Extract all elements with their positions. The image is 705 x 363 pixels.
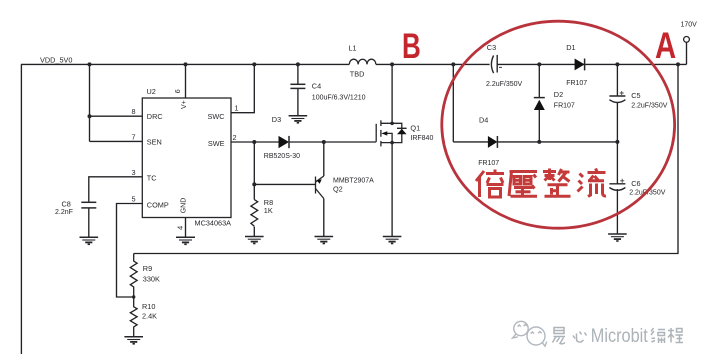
ic U2 MC34063A body bbox=[142, 98, 231, 218]
transistor Q2 MMBT2907A bbox=[316, 176, 324, 199]
wire VDD branch down to pin7 bbox=[89, 64, 91, 141]
wire Q2 emitter drop bbox=[323, 142, 325, 176]
svg-text:FR107: FR107 bbox=[566, 80, 587, 87]
svg-text:4: 4 bbox=[176, 226, 185, 230]
wire to pin 8 DRC bbox=[90, 115, 143, 117]
node C5 top junction bbox=[615, 62, 619, 66]
transistor Q1 IRF840 bbox=[376, 120, 402, 146]
node C4 rail junction bbox=[296, 62, 300, 66]
wire C6 branch top bbox=[616, 142, 618, 184]
node D2 bottom junction bbox=[537, 140, 541, 144]
capacitor C4 plates bbox=[290, 84, 305, 88]
svg-text:6: 6 bbox=[173, 89, 182, 93]
node divider mid junction bbox=[132, 295, 135, 298]
svg-text:3: 3 bbox=[131, 168, 135, 177]
svg-text:SWC: SWC bbox=[207, 112, 224, 121]
wire SWC pin1 up to rail bbox=[231, 64, 254, 112]
capacitor C6 plus bbox=[620, 179, 624, 183]
svg-text:170V: 170V bbox=[681, 22, 698, 29]
svg-text:C8: C8 bbox=[62, 199, 71, 208]
node V+ rail junction bbox=[184, 62, 188, 66]
capacitor C5 plus bbox=[620, 91, 624, 95]
svg-text:1K: 1K bbox=[264, 206, 273, 215]
svg-text:B: B bbox=[402, 26, 421, 66]
wire C6 bottom to ground bbox=[616, 189, 618, 234]
capacitor C5 plates bbox=[609, 96, 625, 103]
capacitor C3 polarity mark bbox=[499, 66, 502, 68]
node Q1 source junction bbox=[390, 141, 394, 145]
node D2 top junction bbox=[537, 62, 541, 66]
resistor R8 bbox=[251, 200, 258, 227]
transistor Q2 emitter arrow bbox=[317, 179, 322, 183]
wire C4 branch bbox=[297, 64, 299, 84]
node Q2 base junction bbox=[252, 182, 256, 186]
wire D2 branch top bbox=[538, 64, 540, 97]
watermark char Cheng bbox=[668, 328, 683, 343]
node feedback top junction bbox=[676, 62, 680, 66]
wire top rail left segment VDD to L1 bbox=[21, 63, 349, 65]
svg-text:D1: D1 bbox=[566, 43, 575, 52]
svg-text:100uF/6.3V/1210: 100uF/6.3V/1210 bbox=[312, 94, 366, 101]
diode D1 bbox=[575, 59, 585, 71]
wire R8 bottom to ground bbox=[253, 227, 255, 237]
wire Q2 collector to ground bbox=[323, 199, 325, 237]
svg-text:A: A bbox=[655, 25, 676, 66]
wire left rail bbox=[20, 64, 22, 354]
watermark char Bian bbox=[651, 328, 665, 343]
inductor L1 bbox=[349, 59, 376, 64]
wire Q1 drain from node B bbox=[391, 64, 393, 123]
wire R8 branch down bbox=[253, 142, 255, 200]
svg-text:2: 2 bbox=[233, 133, 237, 142]
wire D4 row right bbox=[497, 141, 617, 143]
wire V+ stub pin6 bbox=[185, 64, 187, 98]
svg-text:Q2: Q2 bbox=[333, 184, 343, 193]
svg-text:V+: V+ bbox=[181, 100, 188, 109]
annotation char Liu bbox=[578, 169, 607, 197]
wire output terminal stub bbox=[686, 42, 688, 64]
ground Q2 bbox=[315, 237, 334, 244]
diode Q1 body diode bbox=[397, 128, 407, 134]
svg-text:DRC: DRC bbox=[147, 112, 163, 121]
svg-text:R10: R10 bbox=[142, 302, 155, 311]
svg-text:FR107: FR107 bbox=[478, 160, 499, 167]
wire top rail L1 to C3 bbox=[376, 63, 490, 65]
capacitor C8 plates bbox=[81, 202, 96, 208]
wire C4 to ground bbox=[297, 89, 299, 116]
svg-text:IRF840: IRF840 bbox=[410, 135, 433, 142]
svg-text:Microbit: Microbit bbox=[591, 325, 648, 347]
ground C8 bbox=[80, 237, 99, 244]
svg-text:SEN: SEN bbox=[147, 138, 162, 147]
wire GND stub pin4 bbox=[185, 218, 187, 238]
capacitor C6 plates bbox=[609, 184, 625, 191]
svg-text:C6: C6 bbox=[631, 179, 640, 188]
wire SWE pin2 to D3 anode bbox=[231, 141, 279, 143]
svg-text:C5: C5 bbox=[631, 91, 640, 100]
logo watermark bubbles bbox=[513, 321, 547, 346]
wire Q1 source to ground bbox=[391, 143, 393, 237]
svg-text:TC: TC bbox=[147, 174, 157, 183]
svg-text:8: 8 bbox=[131, 107, 135, 116]
node SWC rail junction bbox=[252, 62, 256, 66]
diode D3 bbox=[279, 136, 290, 148]
node VDD junction bbox=[88, 62, 92, 66]
svg-text:RB520S-30: RB520S-30 bbox=[264, 153, 300, 160]
svg-text:1: 1 bbox=[235, 104, 239, 113]
diode D4 bbox=[488, 136, 498, 148]
node C5 bottom junction bbox=[615, 140, 619, 144]
svg-text:MC34063A: MC34063A bbox=[195, 219, 232, 228]
svg-text:MMBT2907A: MMBT2907A bbox=[333, 177, 374, 184]
ground C4 bbox=[289, 116, 308, 123]
svg-text:SWE: SWE bbox=[208, 139, 225, 148]
wire C5 bottom to D4 row bbox=[616, 103, 618, 142]
wire top rail C3 to terminal bbox=[497, 63, 686, 65]
watermark char Xin bbox=[573, 332, 587, 343]
capacitor C3 series plates bbox=[491, 55, 497, 73]
wire D2 bottom to D4 row bbox=[538, 110, 540, 142]
svg-text:C4: C4 bbox=[312, 82, 321, 91]
annotation char Bei bbox=[476, 170, 504, 198]
wire COMP pin5 down to divider bbox=[117, 204, 143, 298]
annotation char Ya bbox=[509, 172, 537, 197]
transistor Q1 body arrow bbox=[381, 131, 387, 135]
node B rail junction bbox=[390, 62, 394, 66]
wire doubler left branch down bbox=[452, 64, 454, 141]
node doubler left junction bbox=[451, 62, 455, 66]
resistor R10 bbox=[130, 297, 137, 337]
annotation char Zheng bbox=[543, 169, 571, 197]
svg-text:5: 5 bbox=[131, 195, 135, 204]
svg-text:Q1: Q1 bbox=[410, 124, 420, 133]
svg-text:2.4K: 2.4K bbox=[142, 311, 157, 320]
ground Q1 source bbox=[383, 237, 402, 244]
svg-text:D4: D4 bbox=[479, 116, 488, 125]
svg-text:D2: D2 bbox=[554, 90, 563, 99]
svg-text:2.2uF/350V: 2.2uF/350V bbox=[631, 103, 668, 110]
svg-text:FR107: FR107 bbox=[554, 102, 575, 109]
svg-text:2.2nF: 2.2nF bbox=[55, 209, 73, 216]
node Q1 drain junction bbox=[390, 122, 394, 126]
svg-text:TBD: TBD bbox=[350, 70, 365, 79]
wire to pin 7 SEN bbox=[90, 140, 143, 142]
watermark char Yi bbox=[553, 328, 566, 344]
ground R10 bbox=[124, 337, 143, 344]
ground R8 bbox=[245, 237, 264, 244]
wire Q2 base bbox=[254, 183, 315, 185]
svg-text:D3: D3 bbox=[272, 115, 281, 124]
svg-text:U2: U2 bbox=[147, 87, 156, 96]
annotation red ellipse bbox=[442, 21, 675, 228]
svg-text:L1: L1 bbox=[349, 44, 357, 53]
wire D3 cathode to Q1 gate bbox=[289, 141, 376, 143]
node Q2 emitter junction bbox=[322, 140, 326, 144]
diode D2 vertical bbox=[534, 98, 545, 110]
ground IC pin4 bbox=[176, 237, 195, 244]
svg-text:VDD_5V0: VDD_5V0 bbox=[40, 55, 72, 64]
wire feedback bottom rail bbox=[134, 64, 678, 253]
wire C8 bottom to ground bbox=[88, 208, 90, 237]
ground C6 bbox=[608, 234, 627, 241]
wire TC pin3 to C8 bbox=[89, 177, 143, 202]
terminal output circle bbox=[684, 37, 690, 43]
node R8 branch junction bbox=[252, 140, 256, 144]
svg-text:2.2uF/350V: 2.2uF/350V bbox=[486, 81, 523, 88]
svg-text:R9: R9 bbox=[143, 264, 152, 273]
svg-text:C3: C3 bbox=[487, 43, 496, 52]
svg-text:GND: GND bbox=[180, 198, 187, 214]
svg-text:330K: 330K bbox=[143, 275, 160, 284]
wire D4 row left bbox=[453, 141, 488, 143]
svg-text:COMP: COMP bbox=[147, 200, 169, 209]
svg-text:7: 7 bbox=[131, 132, 135, 141]
resistor R9 bbox=[130, 254, 137, 298]
wire C5 branch top bbox=[616, 64, 618, 95]
node pin8 branch junction bbox=[88, 114, 92, 118]
